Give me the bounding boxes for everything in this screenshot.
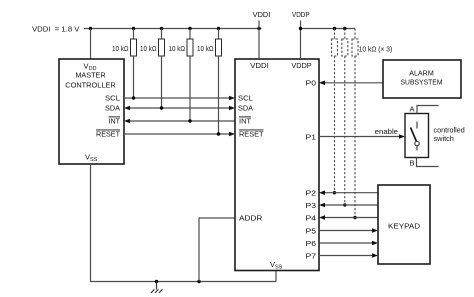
block title MASTER CONTROLLER <box>65 70 116 89</box>
svg-text:P3: P3 <box>306 201 317 210</box>
resistor R5 10 kOhm optional (P2 pull-up, dashed) <box>332 29 338 193</box>
arrowhead P5 into keypad <box>372 228 378 233</box>
svg-text:VDDP: VDDP <box>292 10 310 19</box>
arrowhead P6 into keypad <box>372 241 378 246</box>
arrowhead P2 into chip <box>319 190 325 195</box>
svg-text:CONTROLLER: CONTROLLER <box>65 80 116 89</box>
arrowhead P7 into keypad <box>372 253 378 258</box>
junction dot VDDP rail / R5 <box>333 27 336 30</box>
resistor R1 10 kOhm (SCL pull-up) <box>131 29 137 99</box>
svg-text:P5: P5 <box>306 226 317 235</box>
svg-text:SDA: SDA <box>105 104 120 113</box>
wire chip VSS to ground rail <box>275 271 277 282</box>
junction dot SDA / R2 <box>160 106 163 109</box>
wire chip VDDI drop <box>258 29 260 60</box>
wire master VSS to ground rail <box>91 164 277 282</box>
junction dot RESET / R4 <box>217 132 220 135</box>
svg-text:ALARM: ALARM <box>409 68 434 77</box>
arrowhead P4 into chip <box>319 215 325 220</box>
block ALARM SUBSYSTEM <box>383 60 461 98</box>
svg-text:P1: P1 <box>306 132 317 141</box>
block U1 MASTER CONTROLLER <box>59 59 124 164</box>
svg-text:enable: enable <box>375 127 398 136</box>
wire VDDI rail <box>84 28 262 30</box>
svg-text:P6: P6 <box>306 239 317 248</box>
pin label RESET with overline (chip) <box>239 130 264 139</box>
resistor R7 10 kOhm optional (P4 pull-up, dashed) <box>352 29 358 218</box>
wire P7 to keypad <box>319 255 373 257</box>
arrowhead enable into switch <box>399 134 405 139</box>
wire P3 to keypad <box>324 204 378 206</box>
svg-text:10 kΩ (× 3): 10 kΩ (× 3) <box>359 45 393 54</box>
ground symbol <box>151 282 163 293</box>
svg-text:P2: P2 <box>306 189 317 198</box>
wire SCL (master to chip) <box>124 97 230 99</box>
junction dot P4 / R7 <box>353 216 356 219</box>
block title ALARM SUBSYSTEM <box>401 68 443 86</box>
arrowhead P3 into chip <box>319 203 325 208</box>
pin label RESET with overline (master) <box>96 130 120 139</box>
switch S1 controlled switch box <box>405 114 429 158</box>
wire ADDR to ground <box>199 218 235 282</box>
wire P1 enable to switch <box>319 136 400 138</box>
wire INT (chip to master) <box>129 120 235 122</box>
wire chip VDDP drop <box>300 29 302 60</box>
wire P2 to keypad <box>324 192 378 194</box>
junction dot ground rail / ADDR <box>197 280 200 283</box>
arrowhead SCL into chip <box>229 96 235 101</box>
junction dot SCL / R1 <box>132 96 135 99</box>
junction dot P2 / R5 <box>333 191 336 194</box>
arrowhead INT into master <box>124 119 130 124</box>
svg-text:SCL: SCL <box>105 94 120 103</box>
svg-text:KEYPAD: KEYPAD <box>388 222 421 231</box>
junction dot VDDI rail / master VDD <box>89 27 92 30</box>
pin label INT with overline (chip) <box>239 117 251 126</box>
svg-text:ADDR: ADDR <box>239 213 263 222</box>
svg-text:P7: P7 <box>306 251 317 260</box>
switch S1 internals <box>411 122 420 151</box>
svg-text:P0: P0 <box>306 79 317 88</box>
resistor R6 10 kOhm optional (P3 pull-up, dashed) <box>342 29 348 206</box>
junction dot VDDI rail / R2 <box>160 27 163 30</box>
arrowhead RESET into chip <box>229 132 235 137</box>
arrowhead P0 into chip <box>319 81 325 86</box>
svg-text:P4: P4 <box>306 213 317 222</box>
chip U2 I/O expander <box>235 59 319 271</box>
junction dot ground rail / ground symbol <box>155 280 158 283</box>
junction dot VDDI rail / R4 <box>217 27 220 30</box>
wire VDDI label stub <box>258 21 260 29</box>
junction dot VDDI rail / R3 <box>188 27 191 30</box>
svg-text:switch: switch <box>434 134 454 143</box>
wire VDDP label stub <box>300 21 302 29</box>
junction dot P3 / R6 <box>343 203 346 206</box>
svg-text:B: B <box>409 158 414 167</box>
wire VDDP rail <box>301 28 356 30</box>
block KEYPAD <box>378 185 430 264</box>
junction dot VDDP rail / chip <box>299 27 302 30</box>
svg-text:MASTER: MASTER <box>75 70 106 79</box>
svg-text:VDDP: VDDP <box>291 61 311 70</box>
svg-text:INT: INT <box>109 117 121 126</box>
svg-text:10 kΩ: 10 kΩ <box>197 44 214 53</box>
resistor R2 10 kOhm (SDA pull-up) <box>159 29 165 109</box>
svg-text:10 kΩ: 10 kΩ <box>112 44 129 53</box>
svg-text:INT: INT <box>239 117 251 126</box>
svg-text:SUBSYSTEM: SUBSYSTEM <box>401 78 443 87</box>
svg-text:A: A <box>409 104 414 113</box>
pin label INT with overline (master) <box>109 117 121 126</box>
arrowhead SDA into chip <box>229 106 235 111</box>
svg-text:VDDI = 1.8 V: VDDI = 1.8 V <box>32 25 79 34</box>
wire P5 to keypad <box>319 230 373 232</box>
terminal A wire <box>417 106 439 114</box>
svg-text:10 kΩ: 10 kΩ <box>169 44 186 53</box>
wire master VDD drop <box>90 29 92 60</box>
wire SDA (bidirectional) <box>129 107 230 109</box>
wire P0 to alarm subsystem <box>324 82 383 84</box>
svg-text:VDDI: VDDI <box>250 61 269 70</box>
junction dot INT / R3 <box>188 119 191 122</box>
wire P6 to keypad <box>319 242 373 244</box>
terminal B wire <box>417 158 439 167</box>
svg-text:10 kΩ: 10 kΩ <box>140 44 157 53</box>
svg-text:SCL: SCL <box>238 94 253 103</box>
junction dot VDDP rail / R6 <box>343 27 346 30</box>
svg-text:RESET: RESET <box>96 130 120 139</box>
wire RESET (master to chip) <box>124 133 230 135</box>
junction dot VDDI rail / chip VDDI <box>257 27 260 30</box>
resistor R4 10 kOhm (RESET pull-up) <box>216 29 222 135</box>
label controlled switch <box>434 126 465 143</box>
resistor R3 10 kOhm (INT pull-up) <box>187 29 193 122</box>
svg-text:VDDI: VDDI <box>253 10 271 19</box>
junction dot VDDI rail / R1 <box>132 27 135 30</box>
arrowhead SDA into master <box>124 106 130 111</box>
svg-text:SDA: SDA <box>238 104 253 113</box>
svg-text:RESET: RESET <box>239 130 264 139</box>
wire P4 to keypad <box>324 217 378 219</box>
